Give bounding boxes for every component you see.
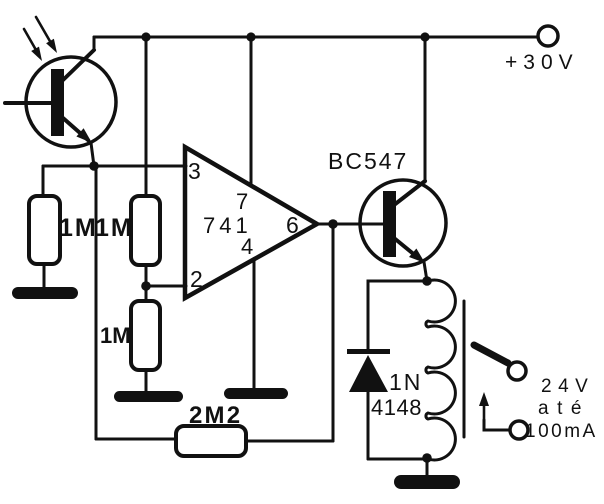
light arrow 2: [36, 17, 57, 53]
ground under pin4: [224, 388, 288, 399]
wire output pin6: [317, 223, 383, 226]
switch contact circle lower: [510, 421, 528, 439]
wire R1 to ground: [43, 264, 46, 289]
wire diode anode down: [367, 392, 370, 459]
terminal +30V circle: [538, 26, 558, 46]
transistor Q1 emitter diagonal with arrow: [63, 118, 94, 166]
wire feedback vertical left: [95, 166, 98, 439]
wire top supply rail: [94, 36, 537, 39]
node emitter junction dot of Q1: [89, 161, 99, 171]
wire pin4 to ground: [253, 259, 256, 389]
node output junction dot: [328, 219, 338, 229]
node relay bottom junction dot: [422, 453, 432, 463]
wire R2 bottom to junction: [145, 265, 148, 301]
transistor Q1 base bar: [51, 69, 64, 136]
wire divider from rail x=146: [145, 37, 148, 196]
resistor R4 2M2 body: [176, 426, 246, 456]
wire left corner down to R1: [42, 166, 45, 196]
switch arrow up: [479, 392, 489, 420]
svg-text:1M: 1M: [95, 214, 134, 242]
wire relay top to diode: [368, 281, 427, 349]
inductor K1 relay coil: [426, 280, 455, 460]
wire pin2 horizontal: [146, 285, 186, 288]
wire lower contact lead: [484, 420, 510, 430]
wire pin7 from rail: [250, 37, 253, 186]
transistor Q2 base bar: [383, 191, 396, 257]
transistor Q1 phototransistor circle: [26, 57, 116, 147]
op-amp U1 741 triangle: [185, 147, 317, 298]
wire feedback vertical from output: [332, 224, 335, 441]
wire feedback bottom right to 2M2: [246, 440, 333, 443]
ground under relay: [394, 475, 460, 489]
ground under R1: [12, 287, 78, 299]
svg-text:1M: 1M: [59, 214, 98, 242]
svg-text:4148: 4148: [371, 395, 422, 420]
node junction dot pin2: [141, 281, 151, 291]
ground under R3: [114, 391, 183, 402]
wire rail corner down to phototransistor collector: [62, 37, 94, 81]
svg-text:2M2: 2M2: [189, 402, 242, 429]
node junction dot on rail at x=251: [246, 32, 255, 41]
node junction dot on rail at x=425: [420, 32, 429, 41]
svg-text:100mA: 100mA: [525, 421, 598, 442]
svg-text:1N: 1N: [389, 369, 422, 395]
light arrow 1: [24, 29, 42, 61]
svg-text:+30V: +30V: [505, 51, 579, 74]
svg-text:até: até: [538, 398, 590, 419]
transistor Q1 collector diagonal: [62, 50, 94, 81]
wire diode bottom to relay bottom: [368, 458, 427, 461]
node junction dot on rail at x=146: [141, 32, 150, 41]
relay core line: [463, 301, 466, 437]
svg-text:2: 2: [190, 266, 203, 292]
transistor Q2 emitter diagonal with arrow: [394, 238, 427, 281]
svg-text:6: 6: [286, 212, 299, 238]
wire relay bottom to ground: [426, 459, 429, 476]
svg-text:3: 3: [188, 158, 201, 184]
switch contact circle upper: [508, 362, 526, 380]
resistor R1 1M body: [29, 196, 60, 264]
wire 2M2 left to x=94: [96, 438, 176, 441]
wire R3 to ground: [145, 370, 148, 392]
resistor R3 1M body: [131, 301, 160, 370]
diode D1 1N4148 cathode bar: [347, 349, 390, 354]
transistor Q2 BC547 circle: [360, 180, 446, 266]
resistor R2 1M body: [131, 196, 160, 265]
switch arm: [474, 345, 508, 363]
node relay top junction dot: [422, 276, 432, 286]
wire pin3 horizontal: [43, 165, 186, 168]
transistor Q2 collector diagonal: [394, 181, 425, 205]
svg-text:BC547: BC547: [328, 148, 408, 174]
svg-text:1M: 1M: [100, 323, 131, 348]
diode D1 triangle: [349, 355, 388, 392]
wire collector from rail: [424, 37, 427, 182]
svg-text:7: 7: [236, 189, 248, 214]
svg-text:24V: 24V: [541, 376, 594, 397]
svg-text:4: 4: [241, 234, 253, 259]
transistor Q1 base lead stub: [5, 101, 51, 105]
